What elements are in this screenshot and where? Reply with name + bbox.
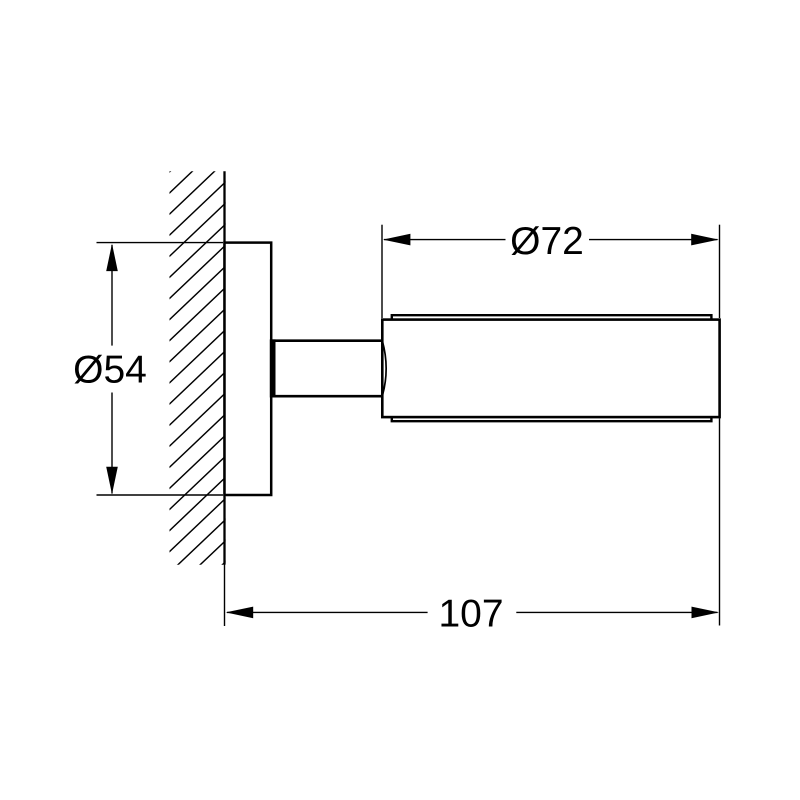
holder top rim lip	[392, 315, 712, 319]
extension line: diameter 54 bottom	[97, 494, 224, 496]
extension line: 107 left (wall line continuation)	[224, 564, 226, 626]
mounting arm top edge	[271, 339, 383, 342]
arrow diameter 72 left	[383, 234, 411, 246]
dimension line 107 left segment	[227, 611, 428, 613]
arrow 107 right	[692, 607, 720, 619]
holder bottom rim lip	[392, 417, 712, 421]
dimension line 107 right segment	[516, 611, 717, 613]
arrow diameter 54 up	[106, 244, 118, 272]
arm-holder intersection curve	[382, 341, 386, 397]
arrow diameter 54 down	[106, 467, 118, 495]
dimension line diameter 54 upper segment	[111, 245, 113, 346]
arrow diameter 72 right	[691, 234, 719, 246]
extension line: diameter 54 top	[97, 242, 224, 244]
svg-text:Ø54: Ø54	[73, 349, 147, 392]
svg-text:Ø72: Ø72	[510, 220, 584, 263]
dimension line diameter 72 left segment	[384, 239, 506, 241]
holder body	[382, 320, 719, 418]
svg-text:107: 107	[438, 593, 503, 636]
wall plate outline	[225, 243, 272, 495]
dimension line diameter 72 right segment	[589, 239, 718, 241]
mounting arm end cap at wall plate	[270, 339, 276, 397]
extension line: diameter 72 left	[381, 225, 383, 318]
extension line: diameter 72 right	[719, 225, 721, 318]
arrow 107 left	[226, 607, 254, 619]
mounting arm bottom edge	[271, 395, 383, 398]
extension line: 107 right	[719, 418, 721, 625]
wall hatching	[164, 114, 230, 620]
wall face line	[223, 171, 225, 564]
dimension line diameter 54 lower segment	[111, 393, 113, 494]
